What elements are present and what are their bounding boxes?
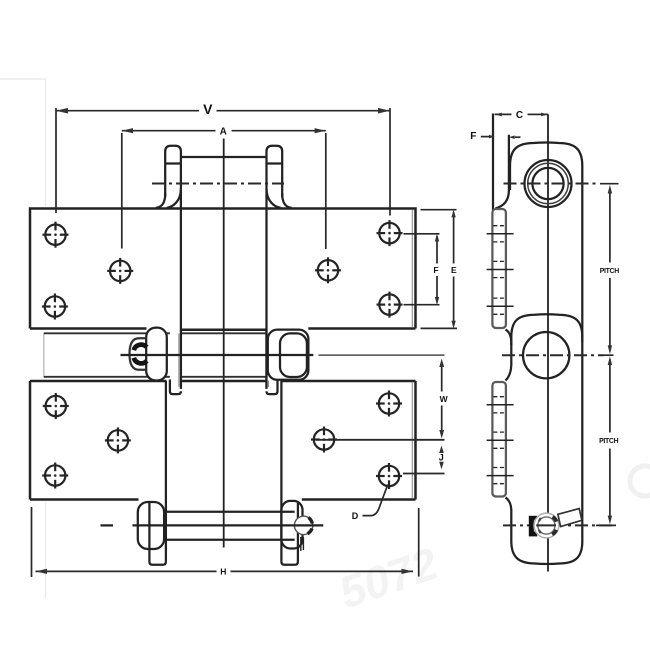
- svg-text:5072: 5072: [333, 538, 444, 619]
- svg-text:D: D: [352, 511, 359, 521]
- svg-text:V: V: [203, 101, 213, 117]
- svg-text:E: E: [451, 265, 457, 275]
- svg-text:J: J: [439, 452, 444, 462]
- svg-text:A: A: [220, 127, 227, 138]
- svg-text:PITCH: PITCH: [600, 268, 619, 275]
- svg-text:H: H: [220, 566, 226, 576]
- svg-text:F: F: [433, 265, 438, 275]
- svg-text:F: F: [470, 131, 476, 142]
- svg-text:W: W: [440, 394, 449, 404]
- svg-text:C: C: [516, 110, 523, 121]
- svg-text:PITCH: PITCH: [599, 438, 618, 445]
